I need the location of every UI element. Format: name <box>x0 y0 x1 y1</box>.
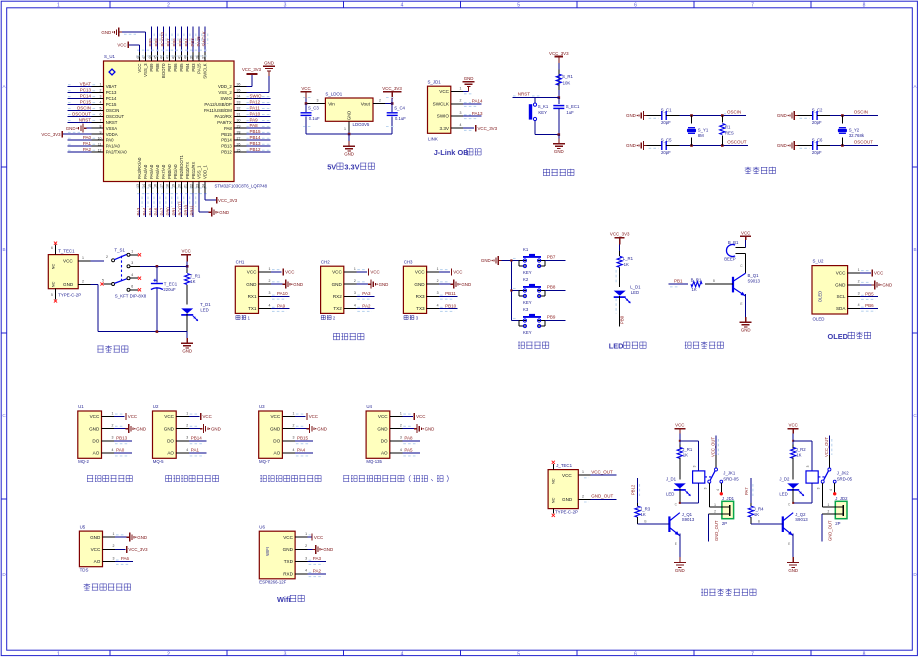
svg-text:VSS_3: VSS_3 <box>143 63 148 77</box>
svg-text:PA15: PA15 <box>196 36 201 47</box>
svg-text:NRST: NRST <box>106 120 118 125</box>
svg-text:8: 8 <box>863 651 866 657</box>
svg-text:PA3: PA3 <box>136 207 141 215</box>
svg-text:PB8: PB8 <box>154 38 159 47</box>
svg-text:DO: DO <box>381 439 388 444</box>
svg-text:S_C4: S_C4 <box>394 105 405 110</box>
svg-text:S_C1: S_C1 <box>661 107 672 112</box>
svg-text:VCC: VCC <box>91 547 101 552</box>
svg-text:SWCLK: SWCLK <box>203 63 208 78</box>
svg-text:PA12: PA12 <box>250 99 261 104</box>
svg-text:LED: LED <box>200 308 208 313</box>
svg-text:SWCLK: SWCLK <box>433 101 450 106</box>
svg-text:J_R3: J_R3 <box>640 506 651 511</box>
svg-text:GND: GND <box>66 126 76 131</box>
svg-text:GND: GND <box>136 426 146 431</box>
svg-text:PB11/RX: PB11/RX <box>191 162 196 179</box>
svg-text:PA6: PA6 <box>121 556 130 561</box>
svg-text:J_R2: J_R2 <box>796 447 807 452</box>
svg-text:PB2/BOOT1: PB2/BOOT1 <box>179 155 184 179</box>
svg-text:PA8: PA8 <box>404 436 413 441</box>
svg-text:3: 3 <box>400 436 402 440</box>
svg-text:28: 28 <box>237 130 241 134</box>
svg-text:SDA: SDA <box>836 306 846 311</box>
svg-text:PA11/USB/DM: PA11/USB/DM <box>204 108 232 113</box>
svg-text:4: 4 <box>354 303 356 307</box>
svg-text:KEY: KEY <box>523 270 532 275</box>
svg-text:PA13: PA13 <box>472 111 483 116</box>
svg-text:20pF: 20pF <box>661 120 671 125</box>
svg-text:VCC_OUT: VCC_OUT <box>591 469 613 474</box>
svg-text:VCC: VCC <box>741 231 750 236</box>
svg-text:NC: NC <box>550 478 555 484</box>
svg-text:VCC: VCC <box>675 423 684 428</box>
svg-text:29: 29 <box>237 124 241 128</box>
svg-text:PB8: PB8 <box>155 63 160 72</box>
svg-text:8: 8 <box>863 2 866 8</box>
svg-text:PA6/A0: PA6/A0 <box>155 164 160 179</box>
svg-text:1: 1 <box>354 267 356 271</box>
svg-text:15: 15 <box>148 184 152 188</box>
svg-text:PA6: PA6 <box>154 207 159 215</box>
svg-text:PA1: PA1 <box>83 141 92 146</box>
svg-text:OSCIN: OSCIN <box>727 110 741 115</box>
svg-text:ESP8266-12F: ESP8266-12F <box>259 580 286 585</box>
svg-text:VCC: VCC <box>314 535 323 540</box>
svg-text:3: 3 <box>354 291 356 295</box>
svg-text:VCC: VCC <box>836 271 846 276</box>
svg-text:T_D1: T_D1 <box>200 302 211 307</box>
svg-text:PB5: PB5 <box>179 63 184 72</box>
svg-text:1: 1 <box>186 411 188 415</box>
svg-text:1: 1 <box>714 503 716 507</box>
svg-text:DO: DO <box>167 439 174 444</box>
svg-text:VSS_2: VSS_2 <box>218 90 232 95</box>
svg-text:OSCOUT: OSCOUT <box>854 140 874 145</box>
svg-text:3: 3 <box>317 99 319 103</box>
svg-text:1: 1 <box>344 127 346 131</box>
svg-text:2: 2 <box>292 424 294 428</box>
svg-text:9: 9 <box>100 130 102 134</box>
svg-text:PA10/RX: PA10/RX <box>214 114 231 119</box>
svg-text:5: 5 <box>517 651 520 657</box>
svg-text:20pF: 20pF <box>661 150 671 155</box>
svg-text:NRST: NRST <box>79 117 92 122</box>
svg-text:VCC_3V3: VCC_3V3 <box>242 67 262 72</box>
svg-text:17: 17 <box>160 184 164 188</box>
svg-text:23: 23 <box>195 184 199 188</box>
svg-text:VCC: VCC <box>283 535 293 540</box>
svg-text:TYPE-C-2P: TYPE-C-2P <box>58 293 81 298</box>
svg-text:PB11: PB11 <box>189 205 194 216</box>
svg-text:0.1uF: 0.1uF <box>395 116 406 121</box>
svg-text:SRD-05: SRD-05 <box>723 476 739 481</box>
svg-text:3: 3 <box>858 291 860 295</box>
svg-text:PA0: PA0 <box>83 135 92 140</box>
svg-text:3: 3 <box>269 291 271 295</box>
svg-text:GND: GND <box>347 111 352 120</box>
svg-text:1K: 1K <box>683 452 688 457</box>
svg-text:PB15: PB15 <box>221 132 232 137</box>
svg-text:2: 2 <box>714 509 716 513</box>
svg-text:30: 30 <box>237 119 241 123</box>
svg-text:LINK: LINK <box>428 137 438 142</box>
svg-text:GND: GND <box>554 149 564 154</box>
svg-text:L_R1: L_R1 <box>623 256 634 261</box>
svg-text:2: 2 <box>460 99 462 103</box>
svg-text:PB15: PB15 <box>250 129 262 134</box>
svg-text:LDO3V5: LDO3V5 <box>353 122 370 127</box>
svg-text:GND: GND <box>264 60 274 65</box>
svg-text:VCC: VCC <box>247 270 257 275</box>
svg-text:B: B <box>644 519 646 523</box>
svg-text:S9013: S9013 <box>795 517 808 522</box>
svg-text:AO: AO <box>93 451 100 456</box>
svg-text:7: 7 <box>751 651 754 657</box>
svg-text:NC: NC <box>51 264 56 270</box>
svg-text:OLED: OLED <box>828 332 849 341</box>
svg-text:VCC: VCC <box>439 89 449 94</box>
svg-text:GND_OUT: GND_OUT <box>591 494 613 499</box>
svg-text:2: 2 <box>82 280 84 284</box>
svg-text:BEEP: BEEP <box>724 256 736 261</box>
svg-text:MQ-5: MQ-5 <box>153 459 164 464</box>
svg-text:OSCIN: OSCIN <box>77 105 91 110</box>
svg-text:VCC: VCC <box>370 270 379 275</box>
svg-text:5: 5 <box>100 107 102 111</box>
svg-text:PB6: PB6 <box>172 38 177 47</box>
svg-text:S9013: S9013 <box>682 517 695 522</box>
svg-text:4: 4 <box>131 273 133 277</box>
svg-text:J_Q2: J_Q2 <box>795 512 806 517</box>
svg-text:U4: U4 <box>366 404 372 409</box>
svg-text:PA7: PA7 <box>160 207 165 215</box>
svg-text:S_R1: S_R1 <box>562 74 573 79</box>
svg-text:2P: 2P <box>835 521 840 526</box>
svg-text:8M: 8M <box>698 133 704 138</box>
svg-text:VDDA: VDDA <box>106 132 118 137</box>
svg-text:GND: GND <box>182 349 192 354</box>
svg-text:27: 27 <box>237 136 241 140</box>
svg-text:VCC: VCC <box>453 270 462 275</box>
svg-text:GND: GND <box>101 30 111 35</box>
svg-text:E: E <box>675 542 677 546</box>
svg-text:B: B <box>2 247 5 252</box>
svg-text:VCC: VCC <box>63 258 73 263</box>
svg-text:13: 13 <box>136 184 140 188</box>
svg-text:GND: GND <box>414 282 425 287</box>
svg-text:VCC_3V3: VCC_3V3 <box>128 547 148 552</box>
svg-text:R1: R1 <box>725 124 731 129</box>
svg-text:PA3: PA3 <box>362 291 371 296</box>
svg-text:RES: RES <box>725 131 734 136</box>
svg-text:PB14: PB14 <box>250 135 262 140</box>
svg-text:3: 3 <box>817 487 821 489</box>
svg-text:PB3: PB3 <box>191 63 196 72</box>
svg-text:AO: AO <box>94 559 101 564</box>
svg-text:S_EC1: S_EC1 <box>566 104 580 109</box>
svg-text:B: B <box>713 279 715 283</box>
svg-text:S9013: S9013 <box>748 278 761 283</box>
svg-text:B_R1: B_R1 <box>691 278 702 283</box>
svg-text:S_U2: S_U2 <box>813 259 825 264</box>
svg-text:36: 36 <box>237 83 241 87</box>
svg-text:B: B <box>913 247 916 252</box>
svg-text:GND: GND <box>562 497 573 502</box>
svg-text:AO: AO <box>381 451 388 456</box>
svg-text:GND: GND <box>626 113 636 118</box>
svg-text:4: 4 <box>716 489 720 491</box>
svg-text:6: 6 <box>634 2 637 8</box>
svg-text:PA14: PA14 <box>472 99 483 104</box>
svg-text:VCC_3V3: VCC_3V3 <box>549 51 569 56</box>
svg-text:PB4: PB4 <box>184 38 189 47</box>
svg-text:J_JD1: J_JD1 <box>722 496 735 501</box>
svg-text:VCC: VCC <box>416 414 425 419</box>
svg-text:VCC: VCC <box>164 414 174 419</box>
svg-text:4: 4 <box>269 303 271 307</box>
svg-text:6: 6 <box>51 246 53 250</box>
svg-text:KEY: KEY <box>538 110 547 115</box>
svg-text:NC: NC <box>550 497 555 503</box>
svg-text:PC13: PC13 <box>80 88 92 93</box>
svg-text:1: 1 <box>269 267 271 271</box>
svg-text:U1: U1 <box>78 404 84 409</box>
svg-text:GND: GND <box>164 426 175 431</box>
svg-text:J-Link OB: J-Link OB <box>434 148 469 157</box>
svg-text:MQ-2: MQ-2 <box>78 459 89 464</box>
svg-text:RX2: RX2 <box>333 294 342 299</box>
svg-text:VCC: VCC <box>301 86 310 91</box>
svg-text:RX1: RX1 <box>248 294 257 299</box>
svg-text:PB7: PB7 <box>167 63 172 72</box>
svg-text:PA9/TX: PA9/TX <box>217 120 232 125</box>
svg-text:3: 3 <box>113 556 115 560</box>
svg-text:S_C5: S_C5 <box>661 137 672 142</box>
svg-text:OSCOUT: OSCOUT <box>727 140 747 145</box>
svg-text:Wifi: Wifi <box>277 595 290 604</box>
svg-text:GND: GND <box>246 282 257 287</box>
svg-text:GND: GND <box>63 282 74 287</box>
svg-text:3: 3 <box>437 291 439 295</box>
svg-text:2: 2 <box>354 279 356 283</box>
svg-text:PC15: PC15 <box>80 99 92 104</box>
svg-text:GND: GND <box>675 568 685 573</box>
svg-text:PA8: PA8 <box>224 126 232 131</box>
svg-text:OSCOUT: OSCOUT <box>106 114 125 119</box>
svg-text:S_U1: S_U1 <box>104 54 116 59</box>
svg-text:220uF: 220uF <box>163 287 176 292</box>
svg-text:CH3: CH3 <box>404 259 413 264</box>
svg-text:2: 2 <box>305 544 307 548</box>
svg-text:PB8: PB8 <box>547 285 556 290</box>
svg-text:SRD-05: SRD-05 <box>837 476 853 481</box>
svg-text:PB12: PB12 <box>631 484 636 495</box>
svg-text:6: 6 <box>100 113 102 117</box>
svg-text:CH1: CH1 <box>236 259 245 264</box>
svg-text:PA10: PA10 <box>250 111 261 116</box>
svg-text:GND: GND <box>270 426 281 431</box>
svg-text:4: 4 <box>460 123 462 127</box>
svg-text:AO: AO <box>274 451 281 456</box>
svg-text:2: 2 <box>828 509 830 513</box>
svg-text:PC14: PC14 <box>106 96 117 101</box>
svg-text:J_D1: J_D1 <box>666 477 677 482</box>
svg-text:MQ-135: MQ-135 <box>366 459 382 464</box>
svg-text:PA2/TX/A0: PA2/TX/A0 <box>106 150 128 155</box>
svg-text:VBAT: VBAT <box>80 82 92 87</box>
svg-text:3.3V: 3.3V <box>344 163 359 172</box>
svg-text:32.768k: 32.768k <box>849 133 865 138</box>
svg-text:PB0: PB0 <box>166 207 171 216</box>
svg-text:VCC: VCC <box>137 64 142 73</box>
svg-text:GND: GND <box>317 426 327 431</box>
svg-text:6: 6 <box>634 651 637 657</box>
svg-text:3: 3 <box>305 556 307 560</box>
svg-text:1: 1 <box>100 83 102 87</box>
svg-text:OSCIN: OSCIN <box>106 108 120 113</box>
svg-text:2: 2 <box>100 89 102 93</box>
svg-text:GND: GND <box>835 282 846 287</box>
svg-text:PA9: PA9 <box>277 303 286 308</box>
svg-text:2: 2 <box>582 494 584 498</box>
svg-text:GND: GND <box>323 547 333 552</box>
svg-text:GND: GND <box>283 547 294 552</box>
svg-text:5: 5 <box>51 293 53 297</box>
svg-text:VCC: VCC <box>128 414 137 419</box>
svg-text:PB13: PB13 <box>116 436 128 441</box>
svg-text:1: 1 <box>292 411 294 415</box>
svg-text:1uF: 1uF <box>566 110 574 115</box>
svg-text:3: 3 <box>703 487 707 489</box>
svg-text:GND: GND <box>777 143 787 148</box>
svg-text:19: 19 <box>172 184 176 188</box>
svg-text:KEY: KEY <box>523 300 532 305</box>
svg-text:J_TEC1: J_TEC1 <box>556 463 572 468</box>
svg-text:3: 3 <box>693 465 697 467</box>
svg-text:PA0: PA0 <box>116 448 125 453</box>
svg-text:PA8: PA8 <box>250 123 259 128</box>
svg-text:VCC: VCC <box>182 249 191 254</box>
svg-text:PA1/A0: PA1/A0 <box>106 144 121 149</box>
svg-text:10K: 10K <box>563 80 571 85</box>
svg-text:B_Q1: B_Q1 <box>748 273 760 278</box>
svg-text:18: 18 <box>166 184 170 188</box>
svg-text:BOOT1: BOOT1 <box>178 200 183 215</box>
svg-text:S_Y2: S_Y2 <box>849 128 860 133</box>
svg-text:PA5: PA5 <box>148 207 153 215</box>
svg-text:PB9: PB9 <box>149 63 154 72</box>
svg-text:35: 35 <box>237 89 241 93</box>
svg-text:34: 34 <box>237 95 241 99</box>
svg-text:VCC_3V3: VCC_3V3 <box>218 198 238 203</box>
svg-text:2P: 2P <box>722 521 727 526</box>
svg-text:DO: DO <box>273 439 280 444</box>
svg-text:T_R1: T_R1 <box>190 273 201 278</box>
svg-text:S_Y1: S_Y1 <box>698 128 709 133</box>
svg-text:PA7: PA7 <box>744 487 749 495</box>
svg-text:MQ-7: MQ-7 <box>259 459 270 464</box>
svg-text:VCC: VCC <box>874 271 883 276</box>
svg-text:1: 1 <box>858 268 860 272</box>
svg-text:LED: LED <box>631 290 639 295</box>
svg-text:1: 1 <box>131 249 133 253</box>
svg-text:VCC: VCC <box>789 423 798 428</box>
svg-text:K2: K2 <box>523 277 529 282</box>
svg-text:PA4/A0: PA4/A0 <box>143 164 148 179</box>
svg-text:5: 5 <box>517 2 520 8</box>
svg-text:2: 2 <box>858 280 860 284</box>
svg-text:VCC: VCC <box>562 473 572 478</box>
svg-text:GND: GND <box>379 282 389 287</box>
svg-text:1: 1 <box>437 267 439 271</box>
svg-text:GND: GND <box>481 258 491 263</box>
svg-text:PC15: PC15 <box>106 102 117 107</box>
svg-text:PA9: PA9 <box>250 117 259 122</box>
svg-text:1: 1 <box>112 411 114 415</box>
svg-text:OSCIN: OSCIN <box>854 110 868 115</box>
svg-text:PA1: PA1 <box>191 448 200 453</box>
svg-text:T_EC1: T_EC1 <box>164 282 178 287</box>
svg-text:1: 1 <box>460 86 462 90</box>
svg-text:GND: GND <box>882 283 892 288</box>
svg-text:S_K1: S_K1 <box>538 104 549 109</box>
svg-text:VCC: VCC <box>270 414 280 419</box>
svg-text:GND: GND <box>137 535 147 540</box>
svg-text:PB10: PB10 <box>445 303 457 308</box>
svg-text:GND_OUT: GND_OUT <box>714 520 719 541</box>
svg-text:RX3: RX3 <box>416 294 425 299</box>
svg-text:KEY: KEY <box>523 330 532 335</box>
svg-text:2: 2 <box>437 279 439 283</box>
svg-text:3: 3 <box>100 95 102 99</box>
svg-text:PB6: PB6 <box>865 303 874 308</box>
svg-text:VBAT: VBAT <box>106 84 117 89</box>
svg-text:32: 32 <box>237 107 241 111</box>
svg-text:1: 1 <box>828 503 830 507</box>
svg-text:4: 4 <box>829 489 833 491</box>
svg-text:PB11: PB11 <box>445 291 456 296</box>
svg-text:U2: U2 <box>153 404 159 409</box>
svg-text:VCC: VCC <box>309 414 318 419</box>
svg-text:1: 1 <box>57 2 60 8</box>
svg-text:TYPE-C-2P: TYPE-C-2P <box>555 510 578 515</box>
svg-text:VDD_1: VDD_1 <box>203 165 208 179</box>
svg-text:2: 2 <box>167 2 170 8</box>
svg-text:PB10/TX: PB10/TX <box>185 162 190 179</box>
svg-text:3: 3 <box>186 436 188 440</box>
svg-text:3.3V: 3.3V <box>440 126 450 131</box>
svg-text:11: 11 <box>98 142 102 146</box>
svg-text:VCC_3V3: VCC_3V3 <box>41 132 61 137</box>
svg-text:2: 2 <box>186 424 188 428</box>
svg-text:PB6: PB6 <box>173 63 178 72</box>
svg-text:TX1: TX1 <box>248 306 257 311</box>
svg-text:PB5: PB5 <box>865 291 874 296</box>
svg-text:GND: GND <box>332 282 343 287</box>
svg-text:B_B1: B_B1 <box>728 240 739 245</box>
svg-text:3: 3 <box>806 465 810 467</box>
svg-text:J_JK1: J_JK1 <box>723 471 736 476</box>
svg-text:S_C3: S_C3 <box>308 105 319 110</box>
svg-text:1K: 1K <box>754 512 759 517</box>
svg-text:2: 2 <box>167 651 170 657</box>
svg-text:PA12/USB/DP: PA12/USB/DP <box>204 102 232 107</box>
svg-text:S_C6: S_C6 <box>812 137 823 142</box>
svg-text:4: 4 <box>305 569 307 573</box>
svg-text:1K: 1K <box>692 287 697 292</box>
svg-text:PA7/A0: PA7/A0 <box>161 164 166 179</box>
